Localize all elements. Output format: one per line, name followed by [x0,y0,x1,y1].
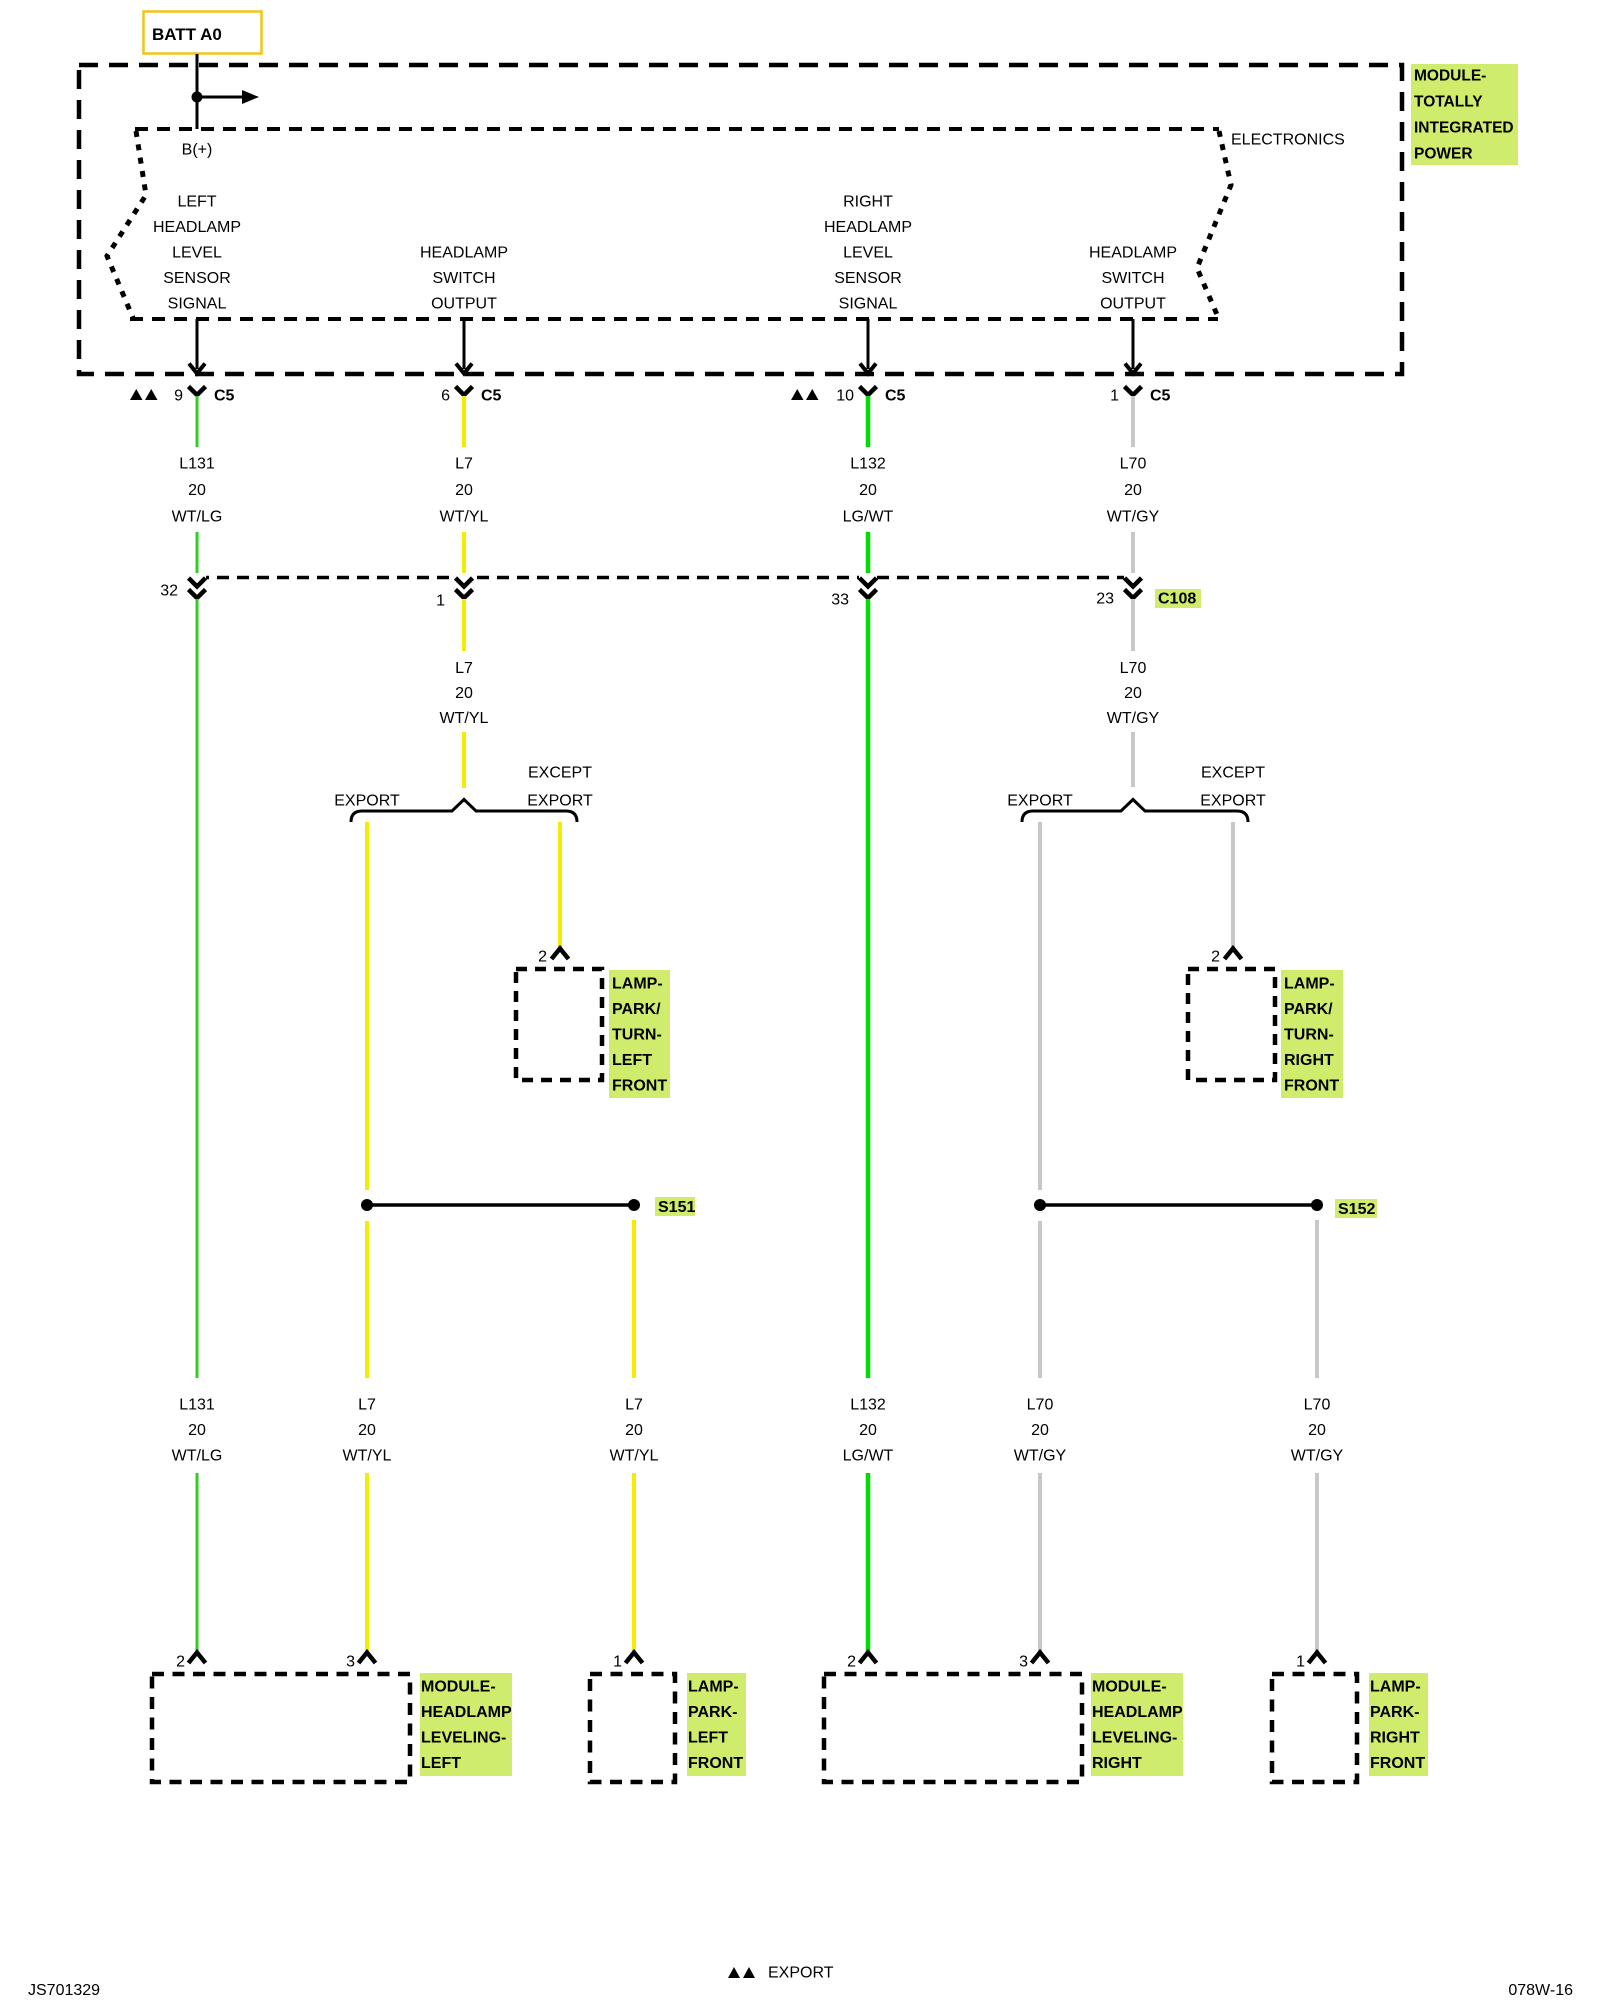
svg-text:TOTALLY: TOTALLY [1414,94,1483,111]
svg-text:LEVELING-: LEVELING- [421,1730,506,1747]
lamp LAMP-PARK/TURN-RIGHT FRONT dashed box [1188,969,1275,1080]
svg-text:L132: L132 [850,456,886,473]
svg-text:L7: L7 [625,1397,643,1414]
connector C5 pin 1 [1110,387,1170,405]
connector label C108 [1155,589,1201,608]
svg-text:LAMP-: LAMP- [1370,1679,1421,1696]
svg-text:TURN-: TURN- [1284,1027,1334,1044]
svg-text:20: 20 [625,1422,643,1439]
svg-text:C5: C5 [1150,388,1171,405]
svg-text:HEADLAMP: HEADLAMP [420,245,508,262]
svg-text:WT/YL: WT/YL [610,1448,659,1465]
wire L7 except-export branch [558,822,562,949]
svg-text:LEFT: LEFT [421,1755,461,1772]
svg-text:20: 20 [1124,482,1142,499]
connector C5 pin 10 [836,387,905,405]
svg-text:MODULE-: MODULE- [1414,68,1486,85]
lamp LAMP-PARK/TURN-LEFT FRONT dashed box [516,969,602,1080]
svg-text:HEADLAMP: HEADLAMP [421,1704,512,1721]
connector leveling-left pin 2 [176,1653,205,1671]
connector leveling-right pin 3 [1019,1653,1048,1671]
svg-text:LG/WT: LG/WT [843,509,894,526]
wire L70 export branch [1038,822,1042,1190]
value label L70 20 ga [1107,456,1160,526]
svg-text:20: 20 [358,1422,376,1439]
label LAMP-PARK/TURN-LEFT FRONT [609,970,670,1098]
wire L7 export branch [365,822,369,1190]
svg-text:JS701329: JS701329 [28,1982,100,1999]
module MODULE-HEADLAMP LEVELING-RIGHT dashed box [824,1674,1082,1782]
svg-text:LG/WT: LG/WT [843,1448,894,1465]
svg-text:SWITCH: SWITCH [1101,270,1164,287]
connector C108 pin 23 [1096,573,1142,608]
svg-text:EXPORT: EXPORT [768,1965,834,1982]
value label L131 20 ga [172,456,223,526]
svg-text:33: 33 [831,592,849,609]
value label L7 20 ga [440,456,489,526]
svg-text:HEADLAMP: HEADLAMP [1089,245,1177,262]
value label L131 lower [172,1397,223,1465]
svg-text:20: 20 [1308,1422,1326,1439]
wire L70 to C108 [1131,532,1135,581]
split bracket right (export / except export) [1022,800,1248,823]
value label L7 lamp drop [610,1397,659,1465]
connector lamp-park-left pin 1 [613,1653,642,1671]
value label L70 export lower [1014,1397,1067,1465]
svg-text:32: 32 [160,583,178,600]
wire L131 upper segment [196,396,199,447]
wire L7 upper segment [462,396,466,447]
connector C5 pin 9 [174,387,234,405]
wire pin arrow right switch output [1125,319,1141,374]
value label L70 20 WT/GY (mid) [1107,660,1160,727]
svg-text:2: 2 [1211,949,1220,966]
pin label HEADLAMP SWITCH OUTPUT (left) [420,245,508,313]
label LAMP-PARK-RIGHT FRONT [1369,1673,1428,1776]
wire pin arrow left level sensor signal [189,319,205,374]
svg-text:LAMP-: LAMP- [688,1679,739,1696]
svg-text:EXPORT: EXPORT [334,793,400,810]
pin label RIGHT HEADLAMP LEVEL SENSOR SIGNAL [824,194,912,313]
svg-text:3: 3 [346,1654,355,1671]
connector lamp-park-right pin 1 [1296,1653,1325,1671]
svg-text:S151: S151 [658,1199,695,1216]
splice S152 [1034,1199,1323,1211]
svg-text:WT/LG: WT/LG [172,509,223,526]
svg-text:WT/YL: WT/YL [440,710,489,727]
TIPM internal block bottom edge [130,317,1218,321]
wire L70 mid segments [1131,599,1135,651]
label MODULE-TOTALLY INTEGRATED POWER [1411,64,1518,165]
wire arrow to other circuits [197,90,259,104]
wire L132 upper segment [866,396,871,447]
svg-text:L7: L7 [455,660,473,677]
svg-text:6: 6 [441,388,450,405]
svg-text:MODULE-: MODULE- [1092,1679,1167,1696]
module MODULE-HEADLAMP LEVELING-LEFT dashed box [152,1674,410,1782]
svg-text:PARK-: PARK- [688,1704,737,1721]
wire L7 drop to lamp-park-left-front [632,1220,636,1378]
svg-text:LEVEL: LEVEL [172,245,222,262]
svg-text:HEADLAMP: HEADLAMP [153,219,241,236]
wire L7 to C108 [462,532,466,581]
svg-text:EXPORT: EXPORT [1007,793,1073,810]
svg-text:20: 20 [859,482,877,499]
svg-text:2: 2 [176,1654,185,1671]
svg-text:LEVELING-: LEVELING- [1092,1730,1177,1747]
connector pin 2 lamp-park/turn-left-front [538,949,568,966]
splice S151 [361,1199,640,1211]
wire L7 export bottom segment [365,1473,369,1652]
svg-text:23: 23 [1096,591,1114,608]
svg-text:2: 2 [847,1654,856,1671]
svg-text:MODULE-: MODULE- [421,1679,496,1696]
svg-text:SENSOR: SENSOR [163,270,231,287]
svg-text:RIGHT: RIGHT [1370,1730,1420,1747]
svg-text:WT/GY: WT/GY [1014,1448,1067,1465]
svg-text:EXCEPT: EXCEPT [1201,765,1265,782]
svg-text:C5: C5 [214,388,235,405]
svg-text:20: 20 [859,1422,877,1439]
svg-text:HEADLAMP: HEADLAMP [824,219,912,236]
label EXCEPT EXPORT (right) [1200,765,1266,810]
svg-text:3: 3 [1019,1654,1028,1671]
export marker triangles (right) [791,389,819,400]
svg-text:L7: L7 [455,456,473,473]
wire L132 long segment [866,599,871,1378]
svg-text:RIGHT: RIGHT [1092,1755,1142,1772]
svg-text:PARK/: PARK/ [612,1001,661,1018]
wire L70 below S152 (left branch) [1038,1221,1042,1378]
svg-text:078W-16: 078W-16 [1508,1982,1573,1999]
wire L131 bottom segment [196,1473,199,1652]
lamp LAMP-PARK-LEFT FRONT dashed box [590,1674,675,1782]
svg-text:1: 1 [613,1654,622,1671]
TIPM internal block top edge [135,127,1219,131]
connector leveling-right pin 2 [847,1653,876,1671]
svg-text:2: 2 [538,949,547,966]
svg-text:C5: C5 [885,388,906,405]
svg-text:OUTPUT: OUTPUT [431,296,497,313]
svg-text:L131: L131 [179,456,215,473]
wire L70 upper segment [1131,396,1135,447]
wire L7 mid segments [462,599,466,651]
svg-text:20: 20 [188,1422,206,1439]
svg-text:1: 1 [1296,1654,1305,1671]
wire battery feed into TIPM [196,54,199,129]
svg-text:HEADLAMP: HEADLAMP [1092,1704,1183,1721]
connector C108 pin 1 [436,573,473,610]
svg-text:LEFT: LEFT [177,194,216,211]
value label L7 export lower [343,1397,392,1465]
splice label S151 [655,1197,695,1216]
svg-text:FRONT: FRONT [1284,1078,1339,1095]
module U1 TIPM outer dashed box [79,65,1402,374]
svg-text:SWITCH: SWITCH [432,270,495,287]
svg-text:LEFT: LEFT [612,1052,652,1069]
TIPM internal block right torn edge [1197,131,1231,317]
svg-text:BATT A0: BATT A0 [152,25,222,44]
value label L132 lower [843,1397,894,1465]
wire L132 bottom segment [866,1473,871,1652]
svg-text:SIGNAL: SIGNAL [839,296,898,313]
svg-text:OUTPUT: OUTPUT [1100,296,1166,313]
svg-text:LAMP-: LAMP- [612,976,663,993]
svg-text:RIGHT: RIGHT [843,194,893,211]
label MODULE-HEADLAMP LEVELING-RIGHT [1091,1673,1183,1776]
svg-text:20: 20 [1124,685,1142,702]
svg-text:ELECTRONICS: ELECTRONICS [1231,132,1345,149]
export marker triangles (left) [130,389,158,400]
svg-text:B(+): B(+) [182,142,213,159]
svg-text:EXPORT: EXPORT [527,793,593,810]
connector C108 dashed line [197,576,1134,580]
value label L7 20 WT/YL (mid) [440,660,489,727]
svg-text:WT/YL: WT/YL [440,509,489,526]
svg-text:L131: L131 [179,1397,215,1414]
wire L131 to C108 [196,532,199,581]
svg-text:RIGHT: RIGHT [1284,1052,1334,1069]
label LAMP-PARK/TURN-RIGHT FRONT [1281,970,1343,1098]
wire L70 except-export branch [1231,822,1235,949]
connector C108 pin 32 [160,573,206,600]
wire L132 to C108 [866,532,871,581]
label MODULE-HEADLAMP LEVELING-LEFT [420,1673,512,1776]
pin label HEADLAMP SWITCH OUTPUT (right) [1089,245,1177,313]
svg-text:FRONT: FRONT [1370,1755,1425,1772]
svg-text:20: 20 [455,685,473,702]
svg-text:20: 20 [455,482,473,499]
svg-text:20: 20 [1031,1422,1049,1439]
svg-text:C108: C108 [1158,591,1196,608]
svg-text:WT/GY: WT/GY [1107,710,1160,727]
wire L7 lamp bottom segment [632,1473,636,1652]
svg-text:SENSOR: SENSOR [834,270,902,287]
wire L70 export bottom segment [1038,1473,1042,1652]
svg-text:L70: L70 [1120,660,1147,677]
svg-text:10: 10 [836,388,854,405]
svg-text:WT/LG: WT/LG [172,1448,223,1465]
wire pin arrow right level sensor signal [860,319,876,374]
svg-text:L7: L7 [358,1397,376,1414]
svg-text:PARK-: PARK- [1370,1704,1419,1721]
svg-text:TURN-: TURN- [612,1027,662,1044]
node battery junction [192,92,203,103]
svg-text:L70: L70 [1027,1397,1054,1414]
connector C5 pin 6 [441,387,501,405]
svg-text:C5: C5 [481,388,502,405]
svg-text:LEFT: LEFT [688,1730,728,1747]
svg-text:FRONT: FRONT [612,1078,667,1095]
svg-text:SIGNAL: SIGNAL [168,296,227,313]
svg-text:20: 20 [188,482,206,499]
svg-text:EXCEPT: EXCEPT [528,765,592,782]
connector leveling-left pin 3 [346,1653,375,1671]
svg-text:FRONT: FRONT [688,1755,743,1772]
svg-text:LAMP-: LAMP- [1284,976,1335,993]
wire L7 below S151 (left branch) [365,1221,369,1378]
svg-text:INTEGRATED: INTEGRATED [1414,120,1514,137]
connector C108 pin 33 [831,573,877,609]
svg-text:S152: S152 [1338,1201,1375,1218]
wire L70 lamp bottom segment [1315,1473,1319,1652]
svg-text:WT/GY: WT/GY [1107,509,1160,526]
wire L131 long segment [196,599,199,1378]
svg-text:EXPORT: EXPORT [1200,793,1266,810]
svg-text:1: 1 [1110,388,1119,405]
svg-text:L132: L132 [850,1397,886,1414]
svg-text:WT/GY: WT/GY [1291,1448,1344,1465]
wire L70 drop to lamp-park-right-front [1315,1220,1319,1378]
connector pin 2 lamp-park/turn-right-front [1211,949,1241,966]
footer export legend [728,1965,834,1982]
svg-text:L70: L70 [1304,1397,1331,1414]
pin label LEFT HEADLAMP LEVEL SENSOR SIGNAL [153,194,241,313]
svg-text:WT/YL: WT/YL [343,1448,392,1465]
value label L70 lamp drop [1291,1397,1344,1465]
fuse feed label BATT A0 [144,12,262,54]
svg-text:PARK/: PARK/ [1284,1001,1333,1018]
lamp LAMP-PARK-RIGHT FRONT dashed box [1272,1674,1357,1782]
label EXCEPT EXPORT (left) [527,765,593,810]
svg-text:POWER: POWER [1414,146,1473,163]
splice label S152 [1335,1199,1377,1218]
value label L132 20 ga [843,456,894,526]
svg-text:1: 1 [436,593,445,610]
svg-text:L70: L70 [1120,456,1147,473]
wire pin arrow left switch output [456,319,472,374]
svg-text:9: 9 [174,388,183,405]
TIPM internal block left torn edge [107,131,146,318]
split bracket left (export / except export) [351,800,577,823]
label LAMP-PARK-LEFT FRONT [687,1673,746,1776]
svg-text:LEVEL: LEVEL [843,245,893,262]
